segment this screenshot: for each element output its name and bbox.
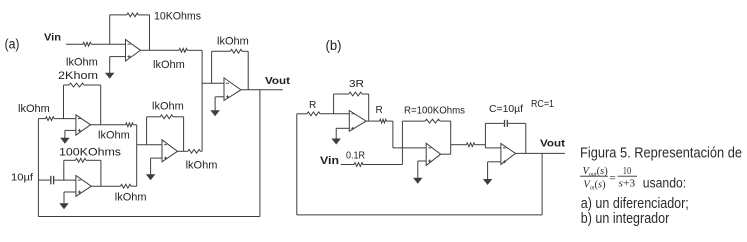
svg-text:3R: 3R bbox=[349, 79, 364, 90]
svg-text:lkOhm: lkOhm bbox=[98, 130, 130, 142]
svg-text:Vout: Vout bbox=[540, 137, 566, 149]
svg-text:10µf: 10µf bbox=[11, 172, 33, 184]
svg-text:Vin: Vin bbox=[44, 32, 61, 44]
svg-text:10: 10 bbox=[623, 165, 632, 177]
svg-text:lkOhm: lkOhm bbox=[152, 101, 184, 113]
svg-text:C=10µf: C=10µf bbox=[489, 104, 523, 115]
svg-text:Vin: Vin bbox=[320, 155, 339, 167]
svg-text:R: R bbox=[309, 100, 316, 111]
svg-text:0.1R: 0.1R bbox=[346, 151, 365, 162]
svg-text:(a): (a) bbox=[5, 37, 20, 52]
svg-text:100KOhms: 100KOhms bbox=[59, 147, 122, 159]
svg-text:lkOhm: lkOhm bbox=[186, 160, 218, 172]
svg-text:lkOhm: lkOhm bbox=[18, 103, 50, 115]
svg-text:lkOhm: lkOhm bbox=[66, 57, 98, 69]
svg-text:usando:: usando: bbox=[643, 174, 687, 190]
svg-text:R=100KOhms: R=100KOhms bbox=[404, 106, 465, 117]
svg-text:10KOhms: 10KOhms bbox=[154, 11, 201, 23]
svg-text:2Khom: 2Khom bbox=[58, 70, 98, 82]
svg-text:b) un integrador: b) un integrador bbox=[581, 210, 670, 227]
svg-text:=: = bbox=[609, 172, 616, 184]
svg-text:(b): (b) bbox=[326, 38, 342, 53]
svg-text:lkOhm: lkOhm bbox=[153, 59, 185, 71]
svg-text:Vout: Vout bbox=[265, 75, 291, 87]
svg-text:Figura 5. Representación de: Figura 5. Representación de bbox=[580, 145, 742, 162]
svg-text:lkOhm: lkOhm bbox=[115, 192, 147, 204]
svg-text:RC=1: RC=1 bbox=[531, 99, 554, 110]
svg-text:s+3: s+3 bbox=[619, 178, 636, 190]
svg-text:lkOhm: lkOhm bbox=[217, 36, 249, 48]
svg-text:R: R bbox=[376, 105, 383, 116]
svg-text:Vin(s): Vin(s) bbox=[583, 180, 606, 192]
